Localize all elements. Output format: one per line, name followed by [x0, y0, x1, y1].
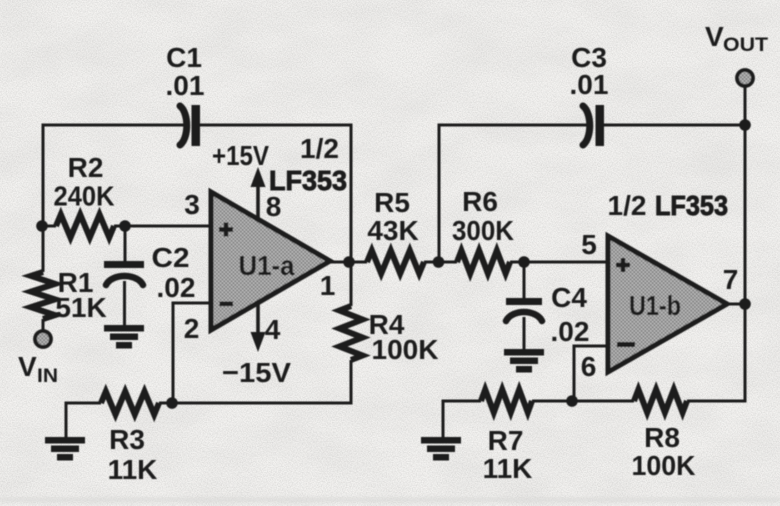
svg-text:3: 3 — [184, 189, 200, 220]
wire: node to pin 3 of U1-a — [125, 225, 213, 228]
wire: pin 2 of U1-a down to feedback node — [173, 303, 213, 403]
label R4 100K — [369, 309, 439, 365]
wire: C3 to VOUT node — [604, 124, 745, 127]
svg-text:R6: R6 — [462, 186, 498, 217]
svg-text:1: 1 — [320, 270, 336, 301]
capacitor C2 — [104, 261, 144, 326]
label C2 .02 — [152, 242, 196, 303]
wire: U1-b output stub — [727, 303, 745, 306]
svg-text:1/2: 1/2 — [608, 190, 647, 221]
junction: pin5 / C4 node — [518, 256, 530, 268]
wire: VOUT terminal lead — [744, 86, 747, 125]
wire: R7 to R8 — [532, 400, 634, 403]
power +15V arrow pin 8 — [251, 167, 266, 219]
svg-text:4: 4 — [265, 314, 281, 345]
wire: node down to C2 — [124, 226, 127, 261]
svg-text:C1: C1 — [166, 42, 202, 73]
svg-text:.02: .02 — [157, 272, 196, 303]
wire: R3 left lead and ground drop — [66, 403, 101, 438]
svg-text:2: 2 — [184, 313, 200, 344]
wire: second feedback loop riser to C3 — [439, 125, 587, 262]
wire: top feedback rail from R2 node up and over to C1 — [43, 125, 184, 227]
label 1/2 LF353 (U1-b) — [608, 190, 728, 221]
svg-text:U1-a: U1-a — [239, 250, 295, 281]
svg-text:.01: .01 — [570, 69, 609, 100]
svg-text:LF353: LF353 — [655, 190, 728, 221]
ground: R3 — [45, 437, 85, 461]
svg-text:IN: IN — [37, 366, 58, 387]
terminal VIN — [35, 331, 51, 347]
wire: C1 to U1-a output rail (down right side of loop) — [199, 125, 351, 259]
resistor R2 — [42, 215, 125, 238]
svg-text:.01: .01 — [166, 70, 205, 101]
label 1/2 LF353 (U1-a) — [269, 133, 347, 196]
terminal VOUT — [737, 70, 753, 86]
svg-text:7: 7 — [723, 264, 739, 295]
label C1 .01 — [166, 42, 205, 101]
svg-text:5: 5 — [581, 229, 597, 260]
resistor R5 — [367, 251, 424, 274]
label R2 240K — [54, 152, 115, 212]
svg-text:V: V — [18, 351, 37, 382]
resistor R8 — [634, 390, 687, 413]
ground: C4 — [504, 349, 544, 373]
wire: C4 top lead — [523, 262, 526, 299]
svg-text:OUT: OUT — [723, 35, 768, 56]
junction: VOUT node — [739, 119, 751, 131]
svg-text:100K: 100K — [372, 334, 439, 365]
junction: R2 left node — [36, 220, 48, 232]
svg-text:51K: 51K — [55, 292, 106, 323]
capacitor C1 — [180, 105, 200, 146]
label VIN — [18, 351, 58, 387]
op-amp U1-a — [211, 192, 330, 330]
wire: R7 left lead and ground drop — [443, 401, 481, 438]
svg-text:C2: C2 — [152, 242, 190, 273]
svg-text:−15V: −15V — [222, 357, 291, 388]
junction: pin 6 bottom node — [566, 395, 578, 407]
capacitor C4 — [506, 298, 542, 350]
label VOUT — [705, 21, 768, 56]
wire: R5 to R6 — [424, 261, 457, 264]
ground: C2 — [104, 325, 144, 349]
resistor R7 — [481, 390, 532, 413]
svg-text:R8: R8 — [644, 422, 680, 453]
label R1 51K — [55, 267, 106, 323]
svg-text:.02: .02 — [551, 316, 590, 347]
wire: bottom rail to R4 lower lead — [159, 360, 351, 403]
svg-text:+15V: +15V — [212, 140, 269, 171]
label R6 300K — [452, 186, 514, 246]
wire: right rail down to R8 — [687, 125, 745, 401]
power -15V arrow pin 4 — [251, 302, 266, 352]
label R8 100K — [632, 422, 696, 481]
svg-text:300K: 300K — [452, 215, 514, 246]
op-amp U1-b — [608, 236, 727, 372]
svg-text:R5: R5 — [374, 187, 410, 218]
resistor R3 — [101, 392, 159, 415]
resistor R6 — [457, 251, 510, 274]
svg-text:C4: C4 — [551, 282, 587, 313]
svg-text:43K: 43K — [367, 215, 418, 246]
wire: R6 to pin 5 of U1-b — [510, 261, 610, 264]
svg-text:240K: 240K — [54, 181, 115, 212]
label R3 11K — [108, 424, 158, 485]
label C3 .01 — [570, 42, 609, 100]
svg-text:1/2: 1/2 — [300, 133, 339, 164]
junction: R2 right / pin 3 node — [119, 220, 131, 232]
junction: U1-b output node — [739, 298, 751, 310]
label R7 11K — [483, 425, 533, 484]
svg-text:6: 6 — [581, 351, 597, 382]
junction: R5/R6 feedback node — [433, 256, 445, 268]
resistor R1 — [31, 226, 55, 331]
resistor R4 — [340, 261, 363, 360]
svg-text:U1-b: U1-b — [629, 290, 681, 321]
capacitor C3 — [583, 105, 604, 146]
label R5 43K — [367, 187, 418, 246]
wire: pin 6 of U1-b down to bottom node — [574, 346, 610, 401]
svg-text:11K: 11K — [483, 453, 533, 484]
svg-text:11K: 11K — [108, 454, 158, 485]
svg-text:100K: 100K — [632, 450, 696, 481]
svg-text:8: 8 — [266, 191, 282, 222]
ground: R7 — [421, 437, 461, 461]
svg-text:R2: R2 — [68, 152, 104, 183]
svg-text:V: V — [705, 21, 724, 52]
wire: U1-a output to R5 — [330, 261, 367, 264]
junction: U1-a output node — [343, 256, 355, 268]
junction: feedback bottom node — [166, 397, 178, 409]
label C4 .02 — [551, 282, 590, 347]
svg-text:R7: R7 — [488, 425, 524, 456]
svg-text:R3: R3 — [109, 424, 145, 455]
